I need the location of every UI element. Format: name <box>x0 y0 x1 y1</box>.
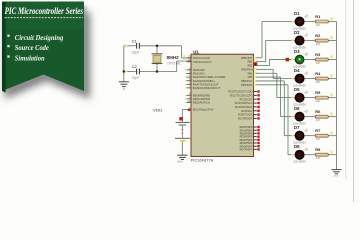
wire D5 to R5 <box>304 97 315 99</box>
svg-text:D2: D2 <box>294 30 300 35</box>
wire RB4 to D5 <box>258 72 277 74</box>
pin RD6/PSP6 <box>254 145 257 147</box>
wire pin indicator D8 <box>292 154 294 156</box>
pin 40 RB7/PGD <box>254 84 259 86</box>
svg-text:R7: R7 <box>315 128 320 133</box>
svg-text:RB7/PGD: RB7/PGD <box>241 83 252 87</box>
pin RD3/PSP3 <box>254 136 257 138</box>
svg-text:RC2/CCP1: RC2/CCP1 <box>240 97 253 101</box>
dashed separator <box>5 17 84 19</box>
pin 37 RB4 <box>254 72 259 74</box>
pin 33 RB0/INT <box>254 57 259 59</box>
wire RB2 to D3 <box>258 65 269 67</box>
wire MCLR to battery <box>182 109 191 111</box>
svg-text:RC0/T1OSO/T1CKI: RC0/T1OSO/T1CKI <box>228 90 252 94</box>
pin 7 RA5/AN4/SS/C2OUT <box>187 87 192 89</box>
pin 34 RB1 <box>254 61 259 63</box>
wire R1 to rail <box>328 21 336 23</box>
svg-text:RB0/INT: RB0/INT <box>241 56 252 60</box>
svg-text:Simulation: Simulation <box>15 55 45 63</box>
svg-text:D3: D3 <box>294 49 300 54</box>
pin RC4/SDI/SDA <box>254 106 257 108</box>
svg-text:CRYSTAL: CRYSTAL <box>167 61 181 65</box>
wire D1 to R1 <box>304 21 315 23</box>
svg-text:D6: D6 <box>294 106 300 111</box>
svg-text:8MHZ: 8MHZ <box>167 55 180 60</box>
wire battery middle <box>181 126 183 139</box>
battery B1 plate short <box>179 124 187 126</box>
wire R2 to rail <box>328 40 336 42</box>
sheet border line <box>353 0 355 202</box>
junction crystal top <box>156 45 158 47</box>
svg-text:D1: D1 <box>294 11 300 16</box>
pin RC5/SDO <box>254 110 257 112</box>
svg-text:+88.8: +88.8 <box>333 176 339 178</box>
pin 9 RE1/AN6/WR <box>187 98 192 100</box>
wire right rail <box>335 22 337 170</box>
pin RC6/TX/CK <box>254 114 257 116</box>
svg-text:RC1/T1OSI/CCP2: RC1/T1OSI/CCP2 <box>230 93 253 97</box>
svg-text:RC4/SDI/SDA: RC4/SDI/SDA <box>235 105 253 109</box>
pin RD1/PSP1 <box>254 129 257 131</box>
svg-text:D7: D7 <box>294 125 300 130</box>
svg-text:R2: R2 <box>315 33 321 38</box>
pin 3 RA1/AN1 <box>187 73 192 75</box>
svg-text:D4: D4 <box>294 68 300 73</box>
pin RC7/RX/DT <box>254 117 257 119</box>
svg-text:R4: R4 <box>315 71 321 76</box>
power indicator (red) <box>179 117 183 120</box>
logic-high indicator (red) <box>286 58 290 62</box>
pin 8 RE0/AN5/RD <box>187 94 192 96</box>
pin RD2/PSP2 <box>254 132 257 134</box>
svg-text:RC7/RX/DT: RC7/RX/DT <box>238 117 253 121</box>
ground (battery) <box>177 154 187 156</box>
svg-text:PIC Microcontroller Series: PIC Microcontroller Series <box>5 6 84 16</box>
pin RC0/T1OSO/T1CKI <box>254 91 257 93</box>
junction crystal bottom <box>156 70 158 72</box>
svg-text:VDD: VDD <box>153 109 163 113</box>
ribbon shadow <box>5 12 90 99</box>
bullet 2 <box>7 45 9 47</box>
pin 4 RA2/AN2/VREF-/CVREF <box>187 76 192 78</box>
wire R4 to rail <box>328 78 336 80</box>
battery B1 plate <box>176 121 190 123</box>
svg-text:RB5: RB5 <box>248 75 253 79</box>
wire pin indicator D5 <box>292 97 294 99</box>
pin 14 OSC2/CLKOUT <box>187 61 192 63</box>
wire pin indicator D4 <box>292 77 294 79</box>
ribbon left fold <box>2 2 6 93</box>
svg-text:R6: R6 <box>315 109 321 114</box>
svg-text:RB6/PGC: RB6/PGC <box>241 79 252 83</box>
bullet 1 <box>7 35 9 37</box>
wire D4 to R4 <box>304 78 315 80</box>
bullet 3 <box>7 55 9 57</box>
svg-text:PIC16F877A: PIC16F877A <box>191 159 214 163</box>
pin RD4/PSP4 <box>254 139 257 141</box>
wire D2 to R2 <box>304 40 315 42</box>
svg-text:RB3/PGM: RB3/PGM <box>241 67 253 71</box>
wire left rail <box>123 46 125 82</box>
svg-text:R5: R5 <box>315 90 321 95</box>
ground (right rail) <box>331 169 341 171</box>
pin RC2/CCP1 <box>254 98 257 100</box>
junction MCLR <box>188 109 190 111</box>
svg-text:RA5/AN4/SS/C2OUT: RA5/AN4/SS/C2OUT <box>193 86 221 90</box>
wire D7 to R7 <box>304 135 315 137</box>
wire pin indicator D2 <box>292 39 294 41</box>
wire R3 to rail <box>328 59 336 61</box>
microcontroller U1 PIC16F877A body <box>191 54 254 156</box>
wire R8 to rail <box>328 154 336 156</box>
svg-text:RC6/TX/CK: RC6/TX/CK <box>238 113 253 117</box>
svg-text:MCLR/Vpp/THV: MCLR/Vpp/THV <box>193 108 214 112</box>
pin 1 MCLR/Vpp/THV <box>187 109 192 111</box>
wire pin indicator D3 <box>292 58 294 60</box>
sheet border line <box>345 0 347 179</box>
svg-text:22pF: 22pF <box>132 76 140 80</box>
wire battery to ground <box>181 142 183 155</box>
wire RB3 to D4 <box>258 68 273 70</box>
pin RD7/PSP7 <box>254 148 257 150</box>
pin RD5/PSP5 <box>254 142 257 144</box>
pin RC3/SCK/SCL <box>254 102 257 104</box>
svg-text:C1: C1 <box>132 39 137 43</box>
pin RD0/PSP0 <box>254 126 257 128</box>
wire R6 to rail <box>328 116 336 118</box>
pin 2 RA0/AN0 <box>187 69 192 71</box>
svg-text:Source Code: Source Code <box>15 44 50 52</box>
svg-text:RE2/AN7/CS: RE2/AN7/CS <box>193 101 210 105</box>
svg-text:C2: C2 <box>132 65 137 69</box>
svg-text:OSC1/CLKIN: OSC1/CLKIN <box>193 56 210 60</box>
svg-text:D5: D5 <box>294 87 300 92</box>
wire pin indicator D1 <box>292 20 294 22</box>
pin 13 OSC1/CLKIN <box>187 57 192 59</box>
wire RB6 to D7 <box>258 80 284 82</box>
ribbon banner <box>2 2 84 92</box>
ground (left rail) <box>119 81 129 83</box>
capacitor C1 <box>136 43 138 49</box>
pin 6 RA4/T0CKI/C1OUT <box>187 83 192 85</box>
svg-text:R1: R1 <box>315 14 321 19</box>
battery B1 plate <box>175 137 190 139</box>
svg-text:+88.8: +88.8 <box>177 161 184 164</box>
wire pin indicator D7 <box>292 135 294 137</box>
pin 39 RB6/PGC <box>254 80 259 82</box>
svg-text:RB1: RB1 <box>248 60 253 64</box>
svg-text:RB4: RB4 <box>248 71 253 75</box>
wire R5 to rail <box>328 97 336 99</box>
crystal X1 <box>156 46 158 54</box>
svg-text:RB2: RB2 <box>248 64 253 68</box>
wire D3 to R3 <box>304 59 315 61</box>
pin RC1/T1OSI/CCP2 <box>254 94 257 96</box>
wire D8 to R8 <box>304 154 315 156</box>
pin 5 RA3/AN3/VREF+ <box>187 80 192 82</box>
wire RB0 to D1 <box>258 57 262 59</box>
svg-text:RC5/SDO: RC5/SDO <box>241 109 253 113</box>
svg-text:U1: U1 <box>193 49 199 54</box>
capacitor C2 <box>136 69 138 75</box>
junction left rail/C2 <box>123 70 125 72</box>
svg-text:Circuit Designing: Circuit Designing <box>15 34 64 42</box>
pin 35 RB2 <box>254 65 259 67</box>
svg-text:R3: R3 <box>315 52 321 57</box>
svg-text:OSC2/CLKOUT: OSC2/CLKOUT <box>193 60 212 64</box>
svg-text:RC3/SCK/SCL: RC3/SCK/SCL <box>235 101 253 105</box>
svg-text:D8: D8 <box>294 144 300 149</box>
wire D6 to R6 <box>304 116 315 118</box>
battery B1 plate yellow <box>180 140 185 142</box>
pin 10 RE2/AN7/CS <box>187 102 192 104</box>
wire R7 to rail <box>328 135 336 137</box>
svg-text:22pF: 22pF <box>132 50 140 54</box>
wire bottom (C2 row to crystal/OSC2) <box>124 71 136 73</box>
svg-text:LED-GREEN: LED-GREEN <box>293 160 305 164</box>
svg-text:R8: R8 <box>315 147 321 152</box>
wire RB7 to D8 <box>258 84 288 86</box>
wire RB5 to D6 <box>258 76 280 78</box>
wire top (C1 row to crystal/OSC1) <box>124 45 136 47</box>
ribbon shadow near <box>4 6 87 94</box>
pin 38 RB5 <box>254 76 259 78</box>
wire pin indicator D6 <box>292 116 294 118</box>
wire RB1 to D2 <box>258 61 265 63</box>
pin 36 RB3/PGM <box>254 68 259 70</box>
svg-text:RD7/PSP7: RD7/PSP7 <box>240 147 253 151</box>
